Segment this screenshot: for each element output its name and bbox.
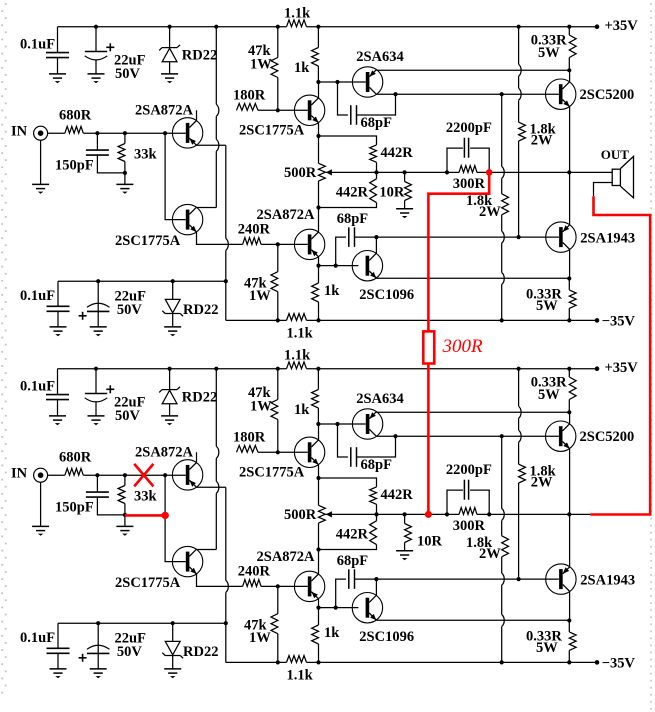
wire 2SC5200 collector (ch1) bbox=[569, 70, 571, 82]
junction VAS row x501 (ch1) bbox=[500, 92, 504, 96]
svg-text:50V: 50V bbox=[117, 302, 142, 318]
junction 22uF neg rail (ch2) bbox=[96, 621, 100, 625]
svg-text:150pF: 150pF bbox=[55, 158, 94, 174]
capacitor 150pF (ch2) bbox=[86, 475, 125, 515]
wire jack to ground (ch1) bbox=[40, 140, 42, 184]
label 2200pF (ch2) bbox=[446, 462, 492, 478]
ground (33k) (ch1) bbox=[116, 184, 133, 193]
junction 68pF right top (ch1) bbox=[393, 92, 397, 96]
junction 2200pF left (ch1) bbox=[445, 170, 449, 174]
wire base node down (ch2) bbox=[165, 475, 186, 561]
ground (RD22 neg) (ch1) bbox=[164, 327, 181, 336]
label 2SA634 (ch2) bbox=[356, 391, 404, 407]
transistor 2SC1775A first (ch2) bbox=[294, 437, 324, 467]
svg-text:33k: 33k bbox=[134, 146, 158, 162]
label 50V (neg) (ch1) bbox=[117, 302, 142, 318]
wiper arrow 500R (ch1) bbox=[326, 169, 332, 175]
wire 68pF-2 right (ch1) bbox=[355, 236, 377, 238]
label 150pF (ch2) bbox=[55, 500, 94, 516]
wire 2SA872A-2 emitter (ch1) bbox=[318, 257, 320, 266]
resistor 0.33R 5W lower (ch1) bbox=[569, 279, 576, 321]
label 2SA872A second (ch1) bbox=[257, 207, 316, 223]
wire 2SA872A-2 collector (ch1) bbox=[318, 208, 320, 233]
wire 2SA1943 collector (ch2) bbox=[569, 592, 571, 621]
label 2W upper (ch1) bbox=[531, 133, 553, 149]
resistor 1k first (ch2) bbox=[312, 369, 319, 424]
resistor 1k second (ch2) bbox=[312, 608, 319, 663]
capacitor 68pF second (ch1) bbox=[349, 227, 355, 247]
wire 240R to base (ch2) bbox=[261, 585, 308, 587]
svg-text:2SA1943: 2SA1943 bbox=[580, 231, 635, 247]
svg-text:180R: 180R bbox=[233, 88, 266, 104]
svg-text:2SC1775A: 2SC1775A bbox=[239, 123, 305, 139]
junction 10R main row (ch1) bbox=[403, 170, 407, 174]
svg-text:2200pF: 2200pF bbox=[446, 462, 492, 478]
ground (RD22 neg) (ch2) bbox=[164, 669, 181, 678]
wire bias column x518 upper (ch1) bbox=[519, 27, 522, 123]
resistor 1.1k (bottom row) (ch1) bbox=[287, 314, 307, 321]
svg-text:0.1uF: 0.1uF bbox=[20, 630, 55, 646]
wire 2SA1943 emitter (ch1) bbox=[569, 172, 571, 224]
label 1k first (ch2) bbox=[294, 402, 310, 418]
terminal -35V dot (ch1) bbox=[595, 318, 600, 323]
svg-text:2SA634: 2SA634 bbox=[356, 391, 404, 407]
label 1k first (ch1) bbox=[294, 60, 310, 76]
junction collector loop rail (ch1) bbox=[214, 25, 218, 29]
label 1.1k (top rail) (ch2) bbox=[284, 348, 311, 364]
label OUT (ch1) bbox=[601, 147, 630, 162]
label 47k second (ch1) bbox=[244, 276, 268, 292]
svg-text:1k: 1k bbox=[324, 283, 340, 299]
svg-text:2SA634: 2SA634 bbox=[356, 49, 404, 65]
svg-text:RD22: RD22 bbox=[183, 644, 218, 660]
red junction dot base column (ch2) bbox=[162, 512, 169, 519]
junction tail neg rail (ch2) bbox=[224, 621, 228, 625]
svg-text:442R: 442R bbox=[381, 145, 414, 161]
capacitor 22uF (pos rail) (ch2) bbox=[85, 369, 108, 416]
label 22uF (neg) (ch2) bbox=[115, 630, 147, 646]
svg-text:1.1k: 1.1k bbox=[284, 6, 311, 22]
label 240R (ch1) bbox=[238, 222, 271, 238]
svg-text:IN: IN bbox=[11, 466, 28, 482]
junction 1k-2 bottom (ch1) bbox=[316, 318, 320, 322]
junction 150pF input (ch2) bbox=[95, 473, 99, 477]
label 10R (ch2) bbox=[417, 533, 443, 549]
svg-text:2SA872A: 2SA872A bbox=[257, 207, 316, 223]
label 22uF (neg) (ch1) bbox=[115, 288, 147, 304]
junction x501 bottom row (ch1) bbox=[500, 318, 504, 322]
label 1.8k upper (ch2) bbox=[530, 464, 557, 480]
label 5W lower (ch2) bbox=[536, 640, 558, 656]
plus sign 22uF (pos) (ch2) bbox=[106, 385, 114, 393]
wire base node down (ch1) bbox=[165, 133, 186, 219]
junction 2SA634 base node (ch2) bbox=[335, 422, 339, 426]
svg-text:2SC5200: 2SC5200 bbox=[580, 87, 635, 103]
capacitor 150pF (ch1) bbox=[86, 133, 125, 173]
svg-text:1W: 1W bbox=[249, 630, 271, 646]
wire bottom row (ch2) bbox=[226, 661, 597, 663]
label 68pF second (ch1) bbox=[337, 211, 369, 227]
ground (RD22 pos) (ch1) bbox=[161, 74, 178, 83]
resistor 442R upper (ch1) bbox=[319, 136, 377, 172]
svg-text:2SC5200: 2SC5200 bbox=[580, 429, 635, 445]
svg-text:0.1uF: 0.1uF bbox=[20, 288, 55, 304]
resistor 10R (ch2) bbox=[405, 514, 412, 550]
transistor 2SA872A first (ch2) bbox=[172, 460, 202, 490]
ground (22uF pos) (ch1) bbox=[88, 74, 105, 83]
zener RD22 (pos rail) (ch1) bbox=[159, 27, 180, 74]
wire main row (ch2) bbox=[326, 513, 591, 515]
label 1k second (ch2) bbox=[324, 625, 340, 641]
junction emitter/1k-2 (ch1) bbox=[316, 264, 320, 268]
label 5W lower (ch1) bbox=[536, 298, 558, 314]
label 442R lower (ch2) bbox=[336, 526, 369, 542]
red resistor 300R (bridge) bbox=[423, 331, 434, 363]
label 1.1k (top rail) (ch1) bbox=[284, 6, 311, 22]
right edge dotted border bbox=[650, 3, 652, 710]
label 1W second (ch2) bbox=[249, 630, 271, 646]
junction 2200pF right (ch2) bbox=[487, 512, 491, 516]
junction 47k rail (ch1) bbox=[276, 25, 280, 29]
transistor 2SC1096 (ch1) bbox=[352, 251, 382, 281]
label 300R (black) (ch2) bbox=[453, 518, 486, 534]
junction 1k bottom (ch2) bbox=[316, 422, 320, 426]
junction 47k-2 row (ch1) bbox=[276, 242, 280, 246]
junction x501 bottom row (ch2) bbox=[500, 660, 504, 664]
junction 47k-2 row (ch2) bbox=[276, 584, 280, 588]
resistor 1.8k 2W upper (ch1) bbox=[519, 122, 526, 237]
svg-text:+35V: +35V bbox=[605, 360, 639, 376]
wire 68pF-2 left (ch1) bbox=[336, 237, 346, 266]
wire bottom row (ch1) bbox=[226, 319, 597, 321]
label 47k first (ch2) bbox=[248, 385, 272, 401]
label 1W first (ch1) bbox=[250, 57, 272, 73]
svg-text:442R: 442R bbox=[336, 526, 369, 542]
svg-text:50V: 50V bbox=[115, 66, 141, 82]
label 2SA1943 (ch1) bbox=[580, 231, 635, 247]
wire 2SC1775A-1 collector (ch2) bbox=[318, 424, 320, 440]
wire 2SC5200 emitter (ch1) bbox=[569, 107, 571, 173]
capacitor 0.1uF (pos rail) (ch2) bbox=[46, 369, 69, 416]
junction 68pF right top (ch2) bbox=[393, 434, 397, 438]
input jack (ch1) bbox=[34, 126, 48, 140]
capacitor 2200pF (ch2) bbox=[447, 480, 489, 515]
wire 68pF-2 left (ch2) bbox=[336, 579, 346, 608]
label +35V (ch1) bbox=[605, 18, 639, 34]
svg-text:1k: 1k bbox=[294, 402, 310, 418]
label 5W upper (ch1) bbox=[538, 45, 560, 61]
label 2W upper (ch2) bbox=[531, 475, 553, 491]
red wire 33k node to base column (ch2) bbox=[125, 514, 165, 517]
resistor 1.1k (bottom row) (ch2) bbox=[287, 656, 307, 663]
wire bias row to 2SA1943 base (ch2) bbox=[376, 578, 559, 580]
label 2SC1775A first (ch2) bbox=[239, 465, 305, 481]
wire 68pF-2 right (ch2) bbox=[355, 578, 377, 580]
resistor 500R trimmer (ch1) bbox=[319, 136, 326, 208]
label 442R lower (ch1) bbox=[336, 184, 369, 200]
label 68pF first (ch1) bbox=[361, 115, 393, 131]
label 2SC5200 (ch1) bbox=[580, 87, 635, 103]
wire 2SA872A-2 emitter (ch2) bbox=[318, 599, 320, 608]
svg-text:50V: 50V bbox=[115, 408, 141, 424]
label 0.1uF (pos rail) (ch2) bbox=[20, 379, 55, 395]
junction base node (ch1) bbox=[163, 131, 167, 135]
terminal +35V dot (ch1) bbox=[595, 24, 600, 29]
svg-text:150pF: 150pF bbox=[55, 500, 94, 516]
label 33k (ch2) bbox=[134, 488, 158, 504]
label 1.8k lower (ch2) bbox=[466, 535, 493, 551]
label 22uF (pos) (ch2) bbox=[114, 395, 146, 411]
ground (22uF pos) (ch2) bbox=[88, 416, 105, 425]
label 2SC1096 (ch2) bbox=[359, 629, 414, 645]
junction x518 bias row (ch1) bbox=[517, 235, 521, 239]
speaker (ch1) bbox=[612, 156, 633, 197]
resistor 300R (black) (ch2) bbox=[459, 508, 477, 515]
transistor 2SC1775A second (ch2) bbox=[172, 546, 202, 576]
svg-text:1k: 1k bbox=[294, 60, 310, 76]
junction 150pF/33k gnd (ch1) bbox=[123, 171, 127, 175]
wire 2SA1943 collector (ch1) bbox=[569, 250, 571, 279]
plus sign 22uF (neg) (ch2) bbox=[79, 654, 87, 662]
junction 1k rail (ch1) bbox=[316, 25, 320, 29]
resistor 180R (ch2) bbox=[237, 446, 259, 453]
label +35V (ch2) bbox=[605, 360, 639, 376]
resistor 180R (ch1) bbox=[237, 104, 259, 111]
junction 22uF pos rail (ch2) bbox=[94, 367, 98, 371]
svg-text:RD22: RD22 bbox=[182, 389, 217, 405]
svg-text:IN: IN bbox=[11, 124, 28, 140]
label 33k (ch1) bbox=[134, 146, 158, 162]
wire 68pF-1 left (ch1) bbox=[338, 82, 348, 115]
capacitor 0.1uF (pos rail) (ch1) bbox=[46, 27, 69, 74]
junction 150pF input (ch1) bbox=[95, 131, 99, 135]
wire bias column x501 (ch1) bbox=[502, 94, 509, 320]
wire 2SA634 emitter row (ch2) bbox=[377, 411, 570, 413]
wire row 1k to 2SA634 base (ch2) bbox=[318, 423, 365, 425]
svg-text:442R: 442R bbox=[381, 487, 414, 503]
wire 180R to base (ch1) bbox=[258, 109, 308, 111]
transistor 2SC1775A first (ch1) bbox=[294, 95, 324, 125]
wire 2SC1096 collector (ch2) bbox=[375, 579, 377, 595]
label 2SA872A first (ch2) bbox=[135, 445, 194, 461]
label 0.1uF (pos rail) (ch1) bbox=[20, 37, 55, 53]
red bridge wire to ch2 output bbox=[427, 364, 430, 515]
label 0.33R upper (ch2) bbox=[531, 375, 567, 391]
wire negative feed row (ch1) bbox=[58, 280, 226, 282]
resistor 240R (ch1) bbox=[243, 238, 262, 245]
wire speaker negative (ch1) bbox=[594, 183, 613, 197]
svg-text:240R: 240R bbox=[238, 564, 271, 580]
junction RD22 neg rail (ch2) bbox=[171, 621, 175, 625]
junction collector loop rail (ch2) bbox=[214, 367, 218, 371]
junction 2200pF left (ch2) bbox=[445, 512, 449, 516]
wire 240R to base (ch1) bbox=[261, 243, 308, 245]
svg-text:1W: 1W bbox=[249, 288, 271, 304]
wire negative feed row (ch2) bbox=[58, 622, 226, 624]
resistor 680R (ch1) bbox=[65, 126, 83, 133]
svg-text:2SC1096: 2SC1096 bbox=[359, 287, 414, 303]
svg-text:10R: 10R bbox=[417, 533, 443, 549]
resistor 1k second (ch1) bbox=[312, 266, 319, 321]
red bridge wire from ch1 output network bbox=[428, 172, 489, 331]
junction 68pF-2 left node (ch1) bbox=[334, 264, 338, 268]
junction 1k-2 bottom (ch2) bbox=[316, 660, 320, 664]
junction 442R main row (ch1) bbox=[374, 170, 378, 174]
label 22uF (pos) (ch1) bbox=[114, 53, 146, 69]
label 0.33R upper (ch1) bbox=[531, 33, 567, 49]
junction 47k-2 bottom (ch2) bbox=[276, 660, 280, 664]
wiper arrow 500R (ch2) bbox=[326, 511, 332, 517]
junction 33k input (ch2) bbox=[123, 473, 127, 477]
transistor 2SA634 (ch1) bbox=[352, 67, 382, 97]
label 2SA634 (ch1) bbox=[356, 49, 404, 65]
plus sign 22uF (neg) (ch1) bbox=[79, 312, 87, 320]
ground (0.1uF pos) (ch1) bbox=[49, 74, 66, 83]
wire tail column (ch2) bbox=[226, 487, 229, 662]
label 0.33R lower (ch2) bbox=[526, 628, 562, 644]
junction 500R bottom node (ch1) bbox=[316, 205, 320, 209]
label 1.1k (bottom) (ch2) bbox=[287, 668, 314, 684]
svg-text:RD22: RD22 bbox=[183, 302, 218, 318]
resistor 10R (ch1) bbox=[405, 172, 412, 208]
capacitor 2200pF (ch1) bbox=[447, 138, 489, 173]
wire 2SA872A-2 collector (ch2) bbox=[318, 550, 320, 575]
terminal +35V dot (ch2) bbox=[595, 366, 600, 371]
transistor 2SC5200 (ch2) bbox=[546, 421, 576, 451]
svg-text:RD22: RD22 bbox=[182, 47, 217, 63]
svg-text:5W: 5W bbox=[536, 298, 558, 314]
junction RD22 pos rail (ch2) bbox=[168, 367, 172, 371]
resistor 47k 1W first (ch1) bbox=[271, 27, 278, 111]
svg-text:10R: 10R bbox=[379, 184, 405, 200]
svg-text:500R: 500R bbox=[284, 165, 317, 181]
label 0.1uF (neg) (ch1) bbox=[20, 288, 55, 304]
wire 2SA634 collector row (ch1) bbox=[377, 93, 559, 95]
plus sign 22uF (pos) (ch1) bbox=[106, 43, 114, 51]
label 10R (ch1) bbox=[379, 184, 405, 200]
wire 2SC1096 emitter row (ch1) bbox=[376, 277, 569, 279]
svg-text:0.1uF: 0.1uF bbox=[20, 379, 55, 395]
red speaker return wire bbox=[590, 196, 650, 514]
svg-text:1.1k: 1.1k bbox=[287, 668, 314, 684]
wire bias column x501 (ch2) bbox=[502, 436, 509, 662]
label 2SA1943 (ch2) bbox=[580, 573, 635, 589]
junction 1k bottom (ch1) bbox=[316, 80, 320, 84]
transistor 2SA872A second (ch1) bbox=[294, 229, 324, 259]
junction 33k input (ch1) bbox=[123, 131, 127, 135]
resistor 1.8k 2W upper (ch2) bbox=[519, 464, 526, 579]
label 2SA872A second (ch2) bbox=[257, 549, 316, 565]
wire 2SC1775A-1 emitter (ch1) bbox=[318, 123, 320, 136]
junction RD22 neg rail (ch1) bbox=[171, 279, 175, 283]
wire 2SC1775A-2 emitter (ch1) bbox=[197, 232, 243, 244]
svg-text:5W: 5W bbox=[538, 45, 560, 61]
junction emitter/500R (ch2) bbox=[316, 476, 320, 480]
ground (input jack) (ch1) bbox=[32, 184, 49, 193]
label 442R upper (ch1) bbox=[381, 145, 414, 161]
ground (22uF neg) (ch2) bbox=[90, 669, 107, 678]
label 5W upper (ch2) bbox=[538, 387, 560, 403]
svg-text:2SC1775A: 2SC1775A bbox=[115, 575, 181, 591]
wire bias column x518 upper (ch2) bbox=[519, 369, 522, 465]
svg-text:2W: 2W bbox=[479, 204, 501, 220]
resistor 300R (black) (ch1) bbox=[459, 166, 477, 173]
junction 0.33R rail (ch2) bbox=[567, 367, 571, 371]
resistor 0.33R 5W upper (ch1) bbox=[569, 27, 576, 71]
wire 680R to base (ch1) bbox=[83, 132, 186, 134]
wire 2SC5200 collector (ch2) bbox=[569, 412, 571, 424]
svg-text:5W: 5W bbox=[536, 640, 558, 656]
wire 2SC1775A-2 collector loop (ch1) bbox=[197, 27, 219, 208]
transistor 2SA634 (ch2) bbox=[352, 409, 382, 439]
capacitor 0.1uF (neg rail) (ch1) bbox=[47, 281, 70, 327]
wire 180R to base (ch2) bbox=[258, 451, 308, 453]
svg-text:−35V: −35V bbox=[602, 656, 636, 672]
svg-text:680R: 680R bbox=[59, 108, 92, 124]
junction RD22 pos rail (ch1) bbox=[168, 25, 172, 29]
svg-text:2SA872A: 2SA872A bbox=[135, 103, 194, 119]
ground (22uF neg) (ch1) bbox=[90, 327, 107, 336]
wire 2SC1096 collector (ch1) bbox=[375, 237, 377, 253]
junction 22uF pos rail (ch1) bbox=[94, 25, 98, 29]
resistor 47k 1W second (ch1) bbox=[271, 244, 278, 320]
junction 0.33R bottom row (ch2) bbox=[567, 660, 571, 664]
wire +35V rail (ch1) bbox=[58, 26, 598, 28]
capacitor 22uF (pos rail) (ch1) bbox=[85, 27, 108, 74]
wire tail column (ch1) bbox=[226, 145, 229, 320]
junction tail neg rail (ch1) bbox=[224, 279, 228, 283]
resistor 47k 1W first (ch2) bbox=[271, 369, 278, 453]
label 2SC1775A second (ch2) bbox=[115, 575, 181, 591]
wire +35V rail (ch2) bbox=[58, 368, 598, 370]
label 2W lower (ch1) bbox=[479, 204, 501, 220]
junction 0.33R rail (ch1) bbox=[567, 25, 571, 29]
junction output emitters (ch2) bbox=[567, 512, 571, 516]
junction 47k-2 bottom (ch1) bbox=[276, 318, 280, 322]
wire jack to ground (ch2) bbox=[40, 482, 42, 526]
ground (10R) (ch1) bbox=[396, 209, 413, 218]
resistor 240R (ch2) bbox=[243, 580, 262, 587]
junction emitter row lower (ch2) bbox=[567, 618, 571, 622]
red X over 33k wire (ch2) bbox=[134, 464, 153, 487]
wire 2SA634 collector row (ch2) bbox=[377, 435, 559, 437]
resistor 47k 1W second (ch2) bbox=[271, 586, 278, 662]
ground (input jack) (ch2) bbox=[32, 526, 49, 535]
junction 0.33R bottom row (ch1) bbox=[567, 318, 571, 322]
junction 150pF/33k gnd (ch2) bbox=[123, 513, 127, 517]
junction 2SC1096 collector row (ch1) bbox=[374, 235, 378, 239]
label 68pF second (ch2) bbox=[337, 553, 369, 569]
label 50V (pos) (ch1) bbox=[115, 66, 141, 82]
capacitor 68pF first (ch1) bbox=[351, 105, 357, 125]
label 180R (ch2) bbox=[233, 430, 266, 446]
label RD22 (pos) (ch1) bbox=[182, 47, 217, 63]
svg-text:1.1k: 1.1k bbox=[287, 326, 314, 342]
svg-text:−35V: −35V bbox=[602, 314, 636, 330]
capacitor 0.1uF (neg rail) (ch2) bbox=[47, 623, 70, 669]
label 442R upper (ch2) bbox=[381, 487, 414, 503]
wire main row (ch1) bbox=[326, 171, 612, 173]
junction emitter row 0.33R (ch1) bbox=[567, 68, 571, 72]
transistor 2SC5200 (ch1) bbox=[546, 79, 576, 109]
junction x518 rail (ch1) bbox=[517, 25, 521, 29]
resistor 442R upper (ch2) bbox=[319, 478, 377, 514]
label 300R (black) (ch1) bbox=[453, 176, 486, 192]
label 1.8k lower (ch1) bbox=[466, 193, 493, 209]
junction 2SC1096 collector row (ch2) bbox=[374, 577, 378, 581]
junction 22uF neg rail (ch1) bbox=[96, 279, 100, 283]
svg-text:+35V: +35V bbox=[605, 18, 639, 34]
